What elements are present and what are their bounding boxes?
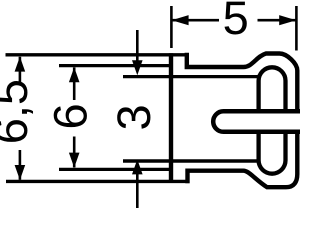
dimension 6,5: top extension line + flange top edge	[6, 53, 189, 56]
inner slot stadium outline	[259, 67, 286, 173]
housing outer profile: step, top edge, dome, right edge, bottom dome, bottom edge	[187, 53, 297, 187]
cavity bottom line	[123, 159, 260, 162]
dimension 5: left extension line	[170, 6, 173, 48]
svg-text:5: 5	[223, 0, 249, 44]
dimension 6: dimension line top segment	[73, 67, 76, 100]
dimension 6,5: bottom extension line + flange bottom edge	[6, 180, 190, 183]
dimension 6: bottom extension line	[59, 168, 171, 171]
dimension 6,5: dimension line top segment	[19, 57, 22, 83]
dimension 3: dimension line bottom segment	[136, 172, 139, 209]
dimension 6,5: down arrowhead	[15, 165, 26, 180]
contact tab (pill, white fill overlays slot walls and right edge)	[213, 111, 305, 132]
dimension 3: down arrowhead	[132, 60, 143, 75]
dimension 5: dimension line right segment	[258, 19, 296, 22]
housing flange left edge	[169, 53, 173, 183]
dimension 6: dimension line bottom segment	[73, 137, 76, 168]
dimension 6: up arrowhead	[69, 67, 80, 82]
cavity top line	[123, 75, 260, 78]
dimension 6,5: up arrowhead	[15, 57, 26, 72]
dimension 6: down arrowhead	[69, 153, 80, 168]
dimension 6,5: dimension line bottom segment	[19, 150, 22, 180]
svg-text:6,5: 6,5	[0, 79, 37, 144]
dimension 5: right arrowhead	[279, 15, 296, 25]
dimension 5: dimension line left segment	[172, 19, 219, 22]
svg-text:6: 6	[43, 103, 96, 129]
svg-text:3: 3	[107, 104, 160, 130]
dimension 5: left arrowhead	[172, 15, 189, 25]
dimension 3: dimension line top segment	[136, 30, 139, 63]
dimension 5: right extension line	[295, 6, 298, 51]
dimension 6: top extension line	[59, 64, 171, 67]
dimension 3: up arrowhead	[132, 159, 143, 174]
